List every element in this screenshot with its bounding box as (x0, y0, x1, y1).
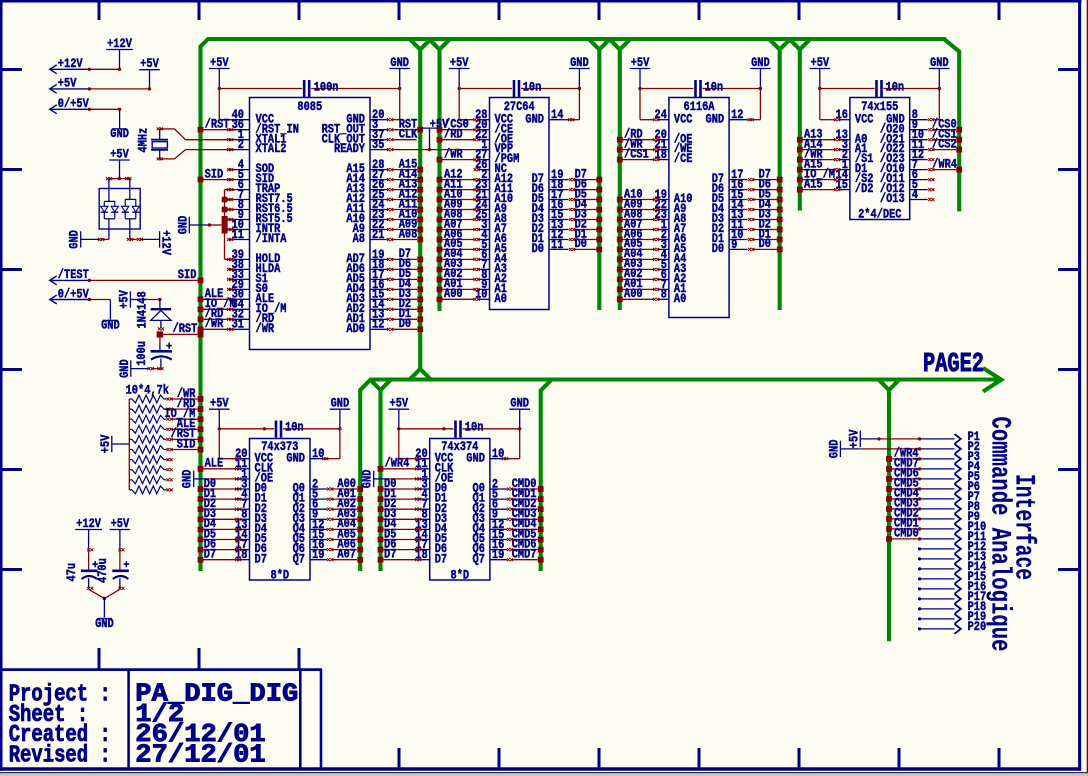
text Commande Analogique (vertical) (983, 417, 1014, 652)
wire A03 bus B2 to 27C64 (437, 267, 480, 273)
svg-text:11: 11 (551, 238, 563, 252)
6116A pin 4 A4 (657, 248, 687, 266)
wire D7 bus B9 to 74x374 (378, 557, 422, 563)
capacitor C4 10n at 74x155 (820, 80, 940, 97)
net label A04 at 74x373 output (337, 517, 356, 531)
6116A pin 20 /OE (655, 128, 693, 146)
74x374 pin 12 Q4 (473, 518, 507, 536)
wire D7 pin to bus B1 (387, 257, 423, 263)
wire D1 pin to bus B1 (387, 316, 423, 322)
wire CMD3 74x374 to bus B10 (507, 516, 544, 522)
global label 0/+5V arrow (50, 97, 90, 114)
bus B10 right of 74x374 corner to H2 (541, 380, 552, 571)
net label SID on /TEST wire (178, 268, 197, 282)
net label D4 at 27C64 right (575, 197, 588, 211)
wire D6 bus B0 to 74x373 (198, 547, 242, 553)
net label /RD at 8085 (205, 307, 224, 321)
wire D3 bus B0 to 74x373 (198, 516, 242, 522)
net label D4 at 74x374 (384, 517, 397, 531)
27C64 pin 26 NC (475, 158, 507, 176)
wire /WR bus B0 to pin (198, 326, 234, 332)
6116A pin 16 D6 (712, 178, 748, 196)
net label /RD at resistor network (177, 397, 196, 411)
6116A pin 11 D2 (712, 218, 748, 236)
wire D1 bus B0 to 74x373 (198, 496, 242, 502)
wire /WR4 74x155 to bus B7 (928, 167, 962, 173)
8085 pin 8 RST6.5 (229, 198, 293, 216)
GND symbol (rotated) at 74x374 /OE (361, 469, 422, 488)
connector P1-P20 pins (918, 430, 987, 634)
74x374 pin 17 D6 (415, 538, 447, 556)
27C64 pin 19 D7 (532, 168, 569, 186)
74x373 pin 6 Q2 (293, 498, 327, 516)
74x373 pin 2 Q0 (293, 477, 327, 495)
svg-text:GND: GND (176, 215, 190, 234)
svg-text:10n: 10n (523, 80, 542, 94)
74x374 pin 16 Q6 (473, 538, 507, 556)
net label D7 at 27C64 right (575, 167, 587, 181)
net label D6 on 8085 bus wire (399, 257, 411, 271)
74x374 pin 3 D0 (418, 477, 447, 495)
net label /CS1 at 6116A (624, 147, 649, 161)
net label ALE at 8085 (205, 287, 224, 301)
wire net TRAP/RST7.5/RST6.5/RST5.5/INTR/HOLD chain (222, 188, 234, 261)
diode network D1-D4 (protection array) (99, 177, 140, 239)
8085 pin 40 VCC (229, 108, 275, 126)
svg-text:GND: GND (827, 439, 841, 458)
wire /TEST to bus B0 (net SID) (88, 278, 204, 284)
8085 pin 33 S1 (229, 268, 268, 286)
net label A02 at 6116A (624, 267, 643, 281)
IC U6 74x374 body (430, 439, 490, 583)
svg-text:GND: GND (331, 397, 350, 411)
74x373 pin 7 D2 (238, 498, 267, 516)
unconnected pin /O23 (928, 158, 934, 161)
net label A02 at 74x373 output (337, 497, 356, 511)
svg-text:12: 12 (731, 108, 743, 122)
GND symbol (rotated) at INTR network (176, 215, 221, 234)
wire D6 6116A to bus B5 (748, 187, 783, 193)
8085 pin 29 S0 (229, 278, 268, 296)
8085 pin 14 AD2 (346, 298, 387, 316)
74x155 pin 9 /O20 (880, 118, 928, 136)
net label D2 on 8085 bus wire (399, 297, 411, 311)
svg-text:A8: A8 (353, 232, 365, 246)
svg-text:+5V: +5V (99, 434, 113, 453)
net label IO_/M at resistor network (164, 407, 195, 421)
bus B3 right of 27C64 rip from H1 (589, 39, 610, 310)
title block (0, 670, 322, 770)
wire A05 74x373 to bus B8 (327, 537, 363, 543)
6116A pin 15 D5 (712, 188, 748, 206)
wire GND to 74x373 pin 10 (322, 427, 342, 460)
svg-text:10: 10 (475, 288, 487, 302)
net label D5 at 74x373 (204, 527, 216, 541)
resistor R9 4.7k (129, 476, 172, 484)
net label D3 on 8085 bus wire (399, 287, 411, 301)
net label D2 at 74x374 (384, 497, 396, 511)
wire D4 6116A to bus B5 (748, 207, 783, 213)
GND power symbol above 8085 (389, 56, 410, 89)
net label D5 at 27C64 right (575, 187, 587, 201)
74x155 pin 11 /O22 (880, 138, 928, 156)
74x155 pin 6 /O11 (880, 168, 928, 186)
wire A05 bus B2 to 27C64 (437, 247, 480, 253)
net label D0 at 74x373 (204, 477, 216, 491)
unconnected pin /INTA (227, 238, 233, 241)
resistor R4 4.7k (ALE) (129, 425, 203, 433)
net label CMD4 at 74x374 output (512, 517, 537, 531)
wire A07 74x373 to bus B8 (327, 557, 363, 563)
wire A10 bus B2 to 27C64 (437, 197, 480, 203)
wire /CS1 bus B4 to 6116A (617, 157, 659, 163)
wire D2 pin to bus B1 (387, 306, 423, 312)
74x155 pin 13 A0 (836, 128, 868, 146)
svg-text:+5V: +5V (210, 397, 229, 411)
svg-text:+5V: +5V (140, 57, 159, 71)
74x373 pin 20 VCC (235, 447, 273, 465)
svg-text:470u: 470u (96, 558, 110, 583)
GND power symbol above 27C64 (569, 56, 590, 89)
net label A08 at 6116A (624, 207, 643, 221)
capacitor C9 10n at 74x374 (399, 421, 520, 438)
svg-text:10n: 10n (886, 80, 905, 94)
net label /CS2 left of bus B7 (932, 137, 957, 151)
8085 pin 13 AD1 (346, 308, 387, 326)
wire A06 74x373 to bus B8 (327, 547, 363, 553)
net label /WR at 74x155 (804, 147, 823, 161)
net label /RST on wire (173, 322, 198, 336)
net label CMD2 at P9 (894, 507, 919, 521)
svg-text:/O13: /O13 (880, 192, 905, 206)
wire D6 bus B9 to 74x374 (378, 547, 422, 553)
net label ALE at 74x373 CLK (205, 457, 224, 471)
IC U5 74x373 body (250, 439, 311, 583)
net label A13 on 8085 bus wire (399, 177, 418, 191)
74x155 pin 3 A1 (838, 138, 867, 156)
svg-text:GND: GND (570, 56, 589, 70)
wire A13 pin to bus B1 (387, 187, 423, 193)
svg-text:10n: 10n (705, 80, 724, 94)
27C64 pin 17 D5 (532, 188, 569, 206)
net label A09 at 27C64 (444, 197, 463, 211)
74x155 pin 12 /O23 (880, 148, 928, 166)
wire A09 pin to bus B1 (387, 227, 423, 233)
net label A13 at 74x155 (804, 128, 823, 142)
capacitor C5 100u (135, 338, 172, 369)
27C64 pin 7 A3 (478, 258, 507, 276)
net label A00 at 27C64 (444, 287, 463, 301)
svg-text:12: 12 (372, 318, 384, 332)
74x155 pin 7 /O10 (880, 158, 928, 176)
wire A02 bus B2 to 27C64 (437, 277, 480, 283)
74x155 pin 14 /S2 (836, 168, 874, 186)
+5V power symbol at 6116A (630, 56, 651, 89)
net label D3 at 74x373 (204, 507, 216, 521)
wire D5 6116A to bus B5 (748, 197, 783, 203)
bus B6 left of 74x155 rip from H1 (789, 39, 810, 211)
wire D7 6116A to bus B5 (748, 177, 783, 183)
wire /WR4 bus B9 to 74x374 pin 11 (378, 466, 422, 472)
wire D2 27C64 to bus B3 (569, 227, 602, 233)
net label D0 on 8085 bus wire (399, 317, 411, 331)
svg-text:19: 19 (492, 548, 504, 562)
wire GND to 6116A pin 12 (748, 87, 763, 121)
net label D0 at 74x374 (384, 477, 396, 491)
27C64 pin 6 A4 (478, 248, 508, 266)
net label D6 at 6116A right (759, 177, 771, 191)
svg-text:GND: GND (525, 112, 544, 126)
wire A03 bus B4 to 6116A (617, 267, 659, 273)
svg-text:2: 2 (238, 138, 244, 152)
74x155 pin 1 D1 (838, 158, 867, 176)
27C64 pin 16 D4 (532, 198, 569, 216)
svg-text:18: 18 (655, 148, 667, 162)
+5V symbol (rotated) at P1 (847, 429, 921, 448)
resistor R2 4.7k (/RD) (129, 405, 203, 413)
wire +5V to 8085 pin 40 VCC (218, 87, 233, 120)
+5V symbol (rotated) at resistor network (99, 434, 130, 453)
net label CMD7 at P4 (894, 457, 919, 471)
wire A12 bus B2 to 27C64 (437, 177, 480, 183)
net label D3 at 6116A right (759, 207, 771, 221)
wire A00 bus B2 to 27C64 (437, 296, 480, 302)
GND power symbol above 6116A (750, 56, 771, 89)
resistor R8 4.7k (129, 466, 172, 474)
net label CMD6 at P5 (894, 467, 919, 481)
svg-text:+5V: +5V (110, 147, 129, 161)
wire IO_/M bus B0 to pin (198, 306, 234, 312)
svg-text:GND: GND (751, 56, 770, 70)
wire D5 27C64 to bus B3 (569, 197, 602, 203)
74x155 pin 16 VCC (836, 108, 874, 126)
GND symbol below C6/C7 (95, 617, 114, 631)
net label D3 at 74x374 (384, 507, 396, 521)
27C64 pin 27 /PGM (475, 148, 519, 166)
net label CMD5 at P6 (894, 477, 919, 491)
wire /CS0 bus B2 to 27C64 (437, 127, 480, 133)
net label D4 on 8085 bus wire (399, 277, 412, 291)
net label A00 at 74x373 output (337, 477, 356, 491)
6116A pin 8 A0 (657, 288, 686, 306)
svg-text:10n: 10n (465, 421, 484, 435)
svg-text:+5V: +5V (117, 290, 131, 309)
net label A15 on 8085 bus wire (399, 157, 418, 171)
wire A12 pin to bus B1 (387, 197, 423, 203)
+5V power symbol at RST/VPP (421, 118, 449, 152)
8085 pin 7 RST7.5 (229, 188, 293, 206)
net label D5 on 8085 bus wire (399, 267, 411, 281)
27C64 pin 23 A11 (475, 178, 513, 196)
net label D6 at 74x373 (204, 537, 216, 551)
GND symbol (rotated) at P2 (827, 439, 921, 458)
net label A02 at 27C64 (444, 267, 463, 281)
net label /WR4 at 74x374 CLK (385, 457, 410, 471)
74x374 pin 8 D3 (418, 508, 447, 526)
svg-text:GND: GND (110, 127, 129, 141)
bus B4 left of 6116A rip from H1 (609, 39, 630, 310)
svg-text:21: 21 (372, 228, 384, 242)
net label CMD2 at 74x374 output (512, 497, 537, 511)
net label RST at pin 3 (399, 118, 418, 132)
net label D1 at 74x374 (384, 487, 396, 501)
74x373 pin 17 D6 (235, 538, 267, 556)
wire CMD0 74x374 to bus B10 (507, 486, 544, 492)
net label /CS0 left of bus B7 (932, 118, 957, 132)
net label A03 at 27C64 (444, 257, 463, 271)
wire D4 bus B0 to 74x373 (198, 527, 242, 533)
net label A05 at 27C64 (444, 237, 463, 251)
8085 pin 35 READY (334, 138, 388, 156)
74x155 pin 4 /O13 (880, 188, 928, 206)
net label D0 at 27C64 right (575, 237, 587, 251)
net label A00 at 6116A (624, 287, 643, 301)
value label 10*4,7k (126, 384, 170, 398)
global label +5V arrow (50, 77, 90, 94)
wire /CS1 74x155 to bus B7 (928, 137, 962, 143)
svg-text:GND: GND (181, 469, 195, 488)
svg-text:1N4148: 1N4148 (136, 291, 150, 328)
GND symbol (rotated) at diode network (68, 230, 109, 249)
svg-text:A0: A0 (674, 292, 686, 306)
net label /RST at resistor network (171, 427, 196, 441)
net label D2 at 27C64 right (575, 217, 587, 231)
net label CMD4 at P7 (894, 487, 919, 501)
svg-text:+5V: +5V (450, 56, 469, 70)
74x373 pin 1 /OE (238, 467, 274, 485)
wire CMD7 bus B11 to P4 (886, 466, 921, 472)
wire A01 bus B4 to 6116A (617, 287, 659, 293)
wire 0/+5V arrow to GND (88, 108, 122, 129)
74x373 pin 3 D0 (238, 477, 267, 495)
+12V power symbol top-left (106, 37, 133, 69)
net label A14 at 74x155 (804, 137, 823, 151)
bus B11 right section rip from H2 (879, 380, 900, 642)
svg-text:GND: GND (930, 56, 949, 70)
8085 pin 2 XTAL2 (229, 138, 287, 156)
8085 pin 24 A11 (346, 198, 387, 216)
GND symbol (rotated) at 74x373 /OE (181, 469, 242, 488)
resistor R5 4.7k (/RST) (129, 436, 203, 444)
74x373 pin 15 Q5 (293, 528, 327, 546)
unconnected pin SOD (227, 168, 233, 171)
diode D5 1N4148 (136, 291, 172, 330)
net label D4 at 6116A right (759, 197, 772, 211)
8085 pin 3 RST_OUT (322, 118, 388, 136)
net label A03 at 74x373 output (337, 507, 356, 521)
wire junction to GND at C6/C7 (103, 597, 106, 618)
net label D6 at 27C64 right (575, 177, 587, 191)
wire D5 bus B0 to 74x373 (198, 537, 242, 543)
svg-text:0/+5V: 0/+5V (58, 287, 89, 301)
6116A pin 2 A6 (657, 228, 686, 246)
net label A06 at 27C64 (444, 227, 463, 241)
svg-text:8*D: 8*D (451, 569, 470, 583)
27C64 pin 13 D2 (532, 218, 569, 236)
svg-text:GND: GND (101, 319, 120, 333)
74x373 pin 13 D4 (235, 518, 267, 536)
GND symbol below lower 0/+5V (101, 319, 120, 333)
wire A01 bus B2 to 27C64 (437, 287, 480, 293)
bus H2 PAGE2 horizontal with B8 corner (360, 380, 999, 572)
27C64 pin 21 A10 (475, 188, 513, 206)
8085 pin 36 /RST_IN (229, 118, 299, 136)
6116A pin 17 D7 (712, 168, 748, 186)
svg-text:35: 35 (372, 138, 384, 152)
wire /WR4 bus B11 to P3 (886, 456, 921, 462)
wire GND to 8085 pin 20 (387, 87, 401, 121)
6116A pin 7 A1 (657, 278, 686, 296)
svg-text:4: 4 (912, 188, 919, 202)
capacitor C7 470u (96, 548, 130, 598)
net label /WR at 8085 (205, 317, 224, 331)
8085 pin 15 AD3 (346, 288, 387, 306)
svg-text:Revised :: Revised : (9, 743, 111, 770)
74x373 pin 8 D3 (238, 508, 267, 526)
wire +5V to 74x155 pin 16 (818, 87, 840, 121)
wire +5V to 74x373 pin 20 (218, 427, 242, 460)
74x373 pin 18 D7 (235, 548, 267, 566)
wire A11 pin to bus B1 (387, 207, 423, 213)
net label D4 at 74x373 (204, 517, 217, 531)
svg-text:+12V: +12V (159, 230, 173, 255)
svg-text:AD0: AD0 (346, 322, 365, 336)
8085 pin 16 AD4 (346, 278, 387, 296)
6116A pin 23 A8 (655, 208, 687, 226)
74x373 pin 14 D5 (235, 528, 267, 546)
svg-text:/CE: /CE (674, 152, 693, 166)
wire CMD3 bus B11 to P8 (886, 506, 921, 512)
IC U1 8085 body (250, 98, 371, 350)
net label A03 at 6116A (624, 257, 643, 271)
74x373 pin 5 Q1 (293, 488, 327, 506)
wire CMD1 bus B11 to P10 (886, 526, 921, 532)
net label SID at resistor network (177, 437, 196, 451)
net label A15 at 74x155 (804, 177, 823, 191)
wire D3 6116A to bus B5 (748, 217, 783, 223)
wire D6 pin to bus B1 (387, 267, 423, 273)
wire D4 bus B9 to 74x374 (378, 527, 422, 533)
8085 pin 30 ALE (229, 288, 274, 306)
wire GND to 27C64 pin 14 (568, 87, 581, 121)
8085 pin 37 CLK_OUT (322, 128, 388, 146)
6116A pin 10 D1 (712, 228, 748, 246)
svg-text:D7: D7 (255, 552, 267, 566)
bus B1 right of 8085 (joins H1 and H2) (410, 39, 431, 380)
net label /WR at 27C64 (444, 147, 463, 161)
net label A01 at 74x373 output (337, 487, 356, 501)
svg-text:VCC: VCC (855, 112, 874, 126)
74x373 pin 4 D1 (238, 488, 267, 506)
8085 pin 21 A8 (353, 228, 388, 246)
svg-text:19: 19 (312, 548, 324, 562)
svg-text:10*4,7k: 10*4,7k (126, 384, 170, 398)
8085 pin 20 GND (346, 108, 387, 126)
wire +12V arrow to symbol (88, 68, 122, 71)
svg-text:+5V: +5V (210, 56, 229, 70)
capacitor C2 10n at 27C64 (459, 80, 579, 97)
net label CMD0 at P11 (894, 527, 919, 541)
net label A10 at 6116A (624, 187, 643, 201)
74x373 pin 11 CLK (235, 457, 273, 475)
wire A09 bus B4 to 6116A (617, 207, 659, 213)
wire A13 bus B6 to 74x155 (797, 137, 840, 143)
wire +5V to 74x374 pin 20 (397, 427, 421, 460)
wire /WR bus B2 to 27C64 (437, 157, 480, 163)
svg-text:9: 9 (731, 238, 737, 252)
27C64 pin 20 /CE (475, 118, 513, 136)
wire GND to 74x155 pin 8 (928, 87, 941, 121)
